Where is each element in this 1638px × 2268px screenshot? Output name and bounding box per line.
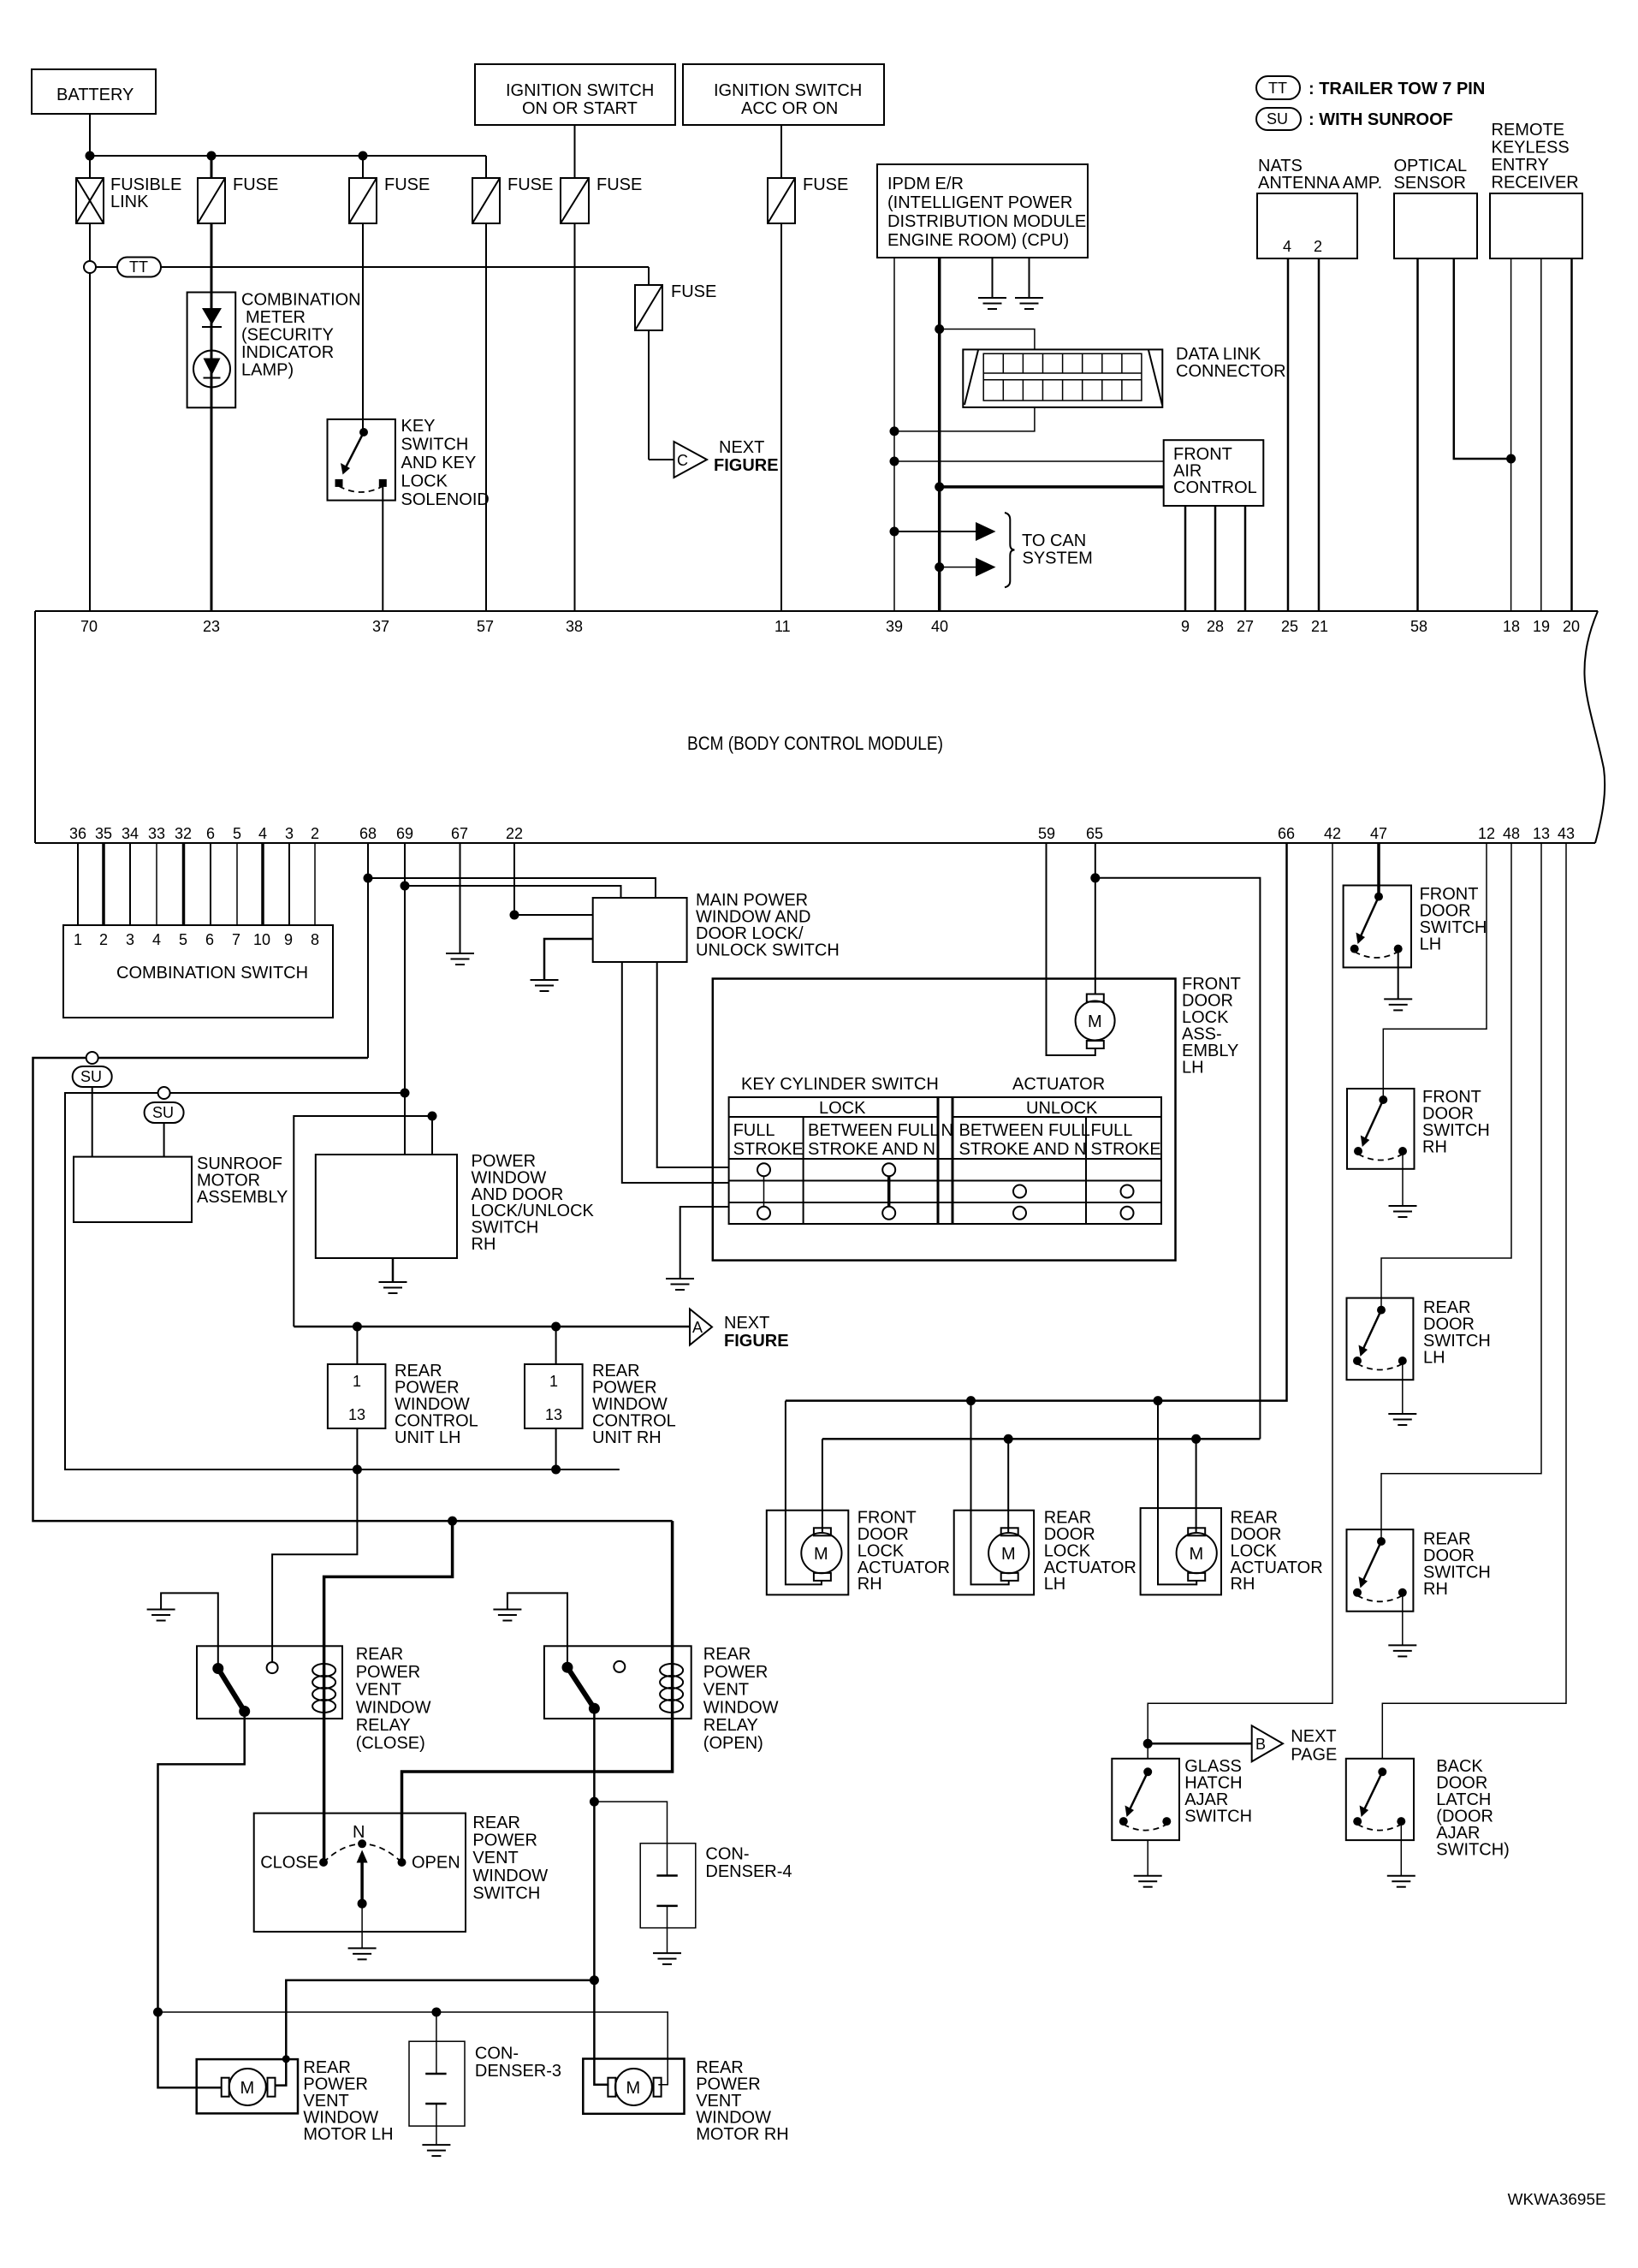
wire fuse4 to pin57	[485, 223, 487, 612]
svg-text:SU: SU	[152, 1104, 174, 1121]
wire dlc bottom to pin39 line	[894, 407, 1035, 431]
svg-text:CLOSE: CLOSE	[260, 1854, 318, 1873]
node pin68 branch	[364, 874, 373, 883]
wire to connector b	[1148, 1743, 1252, 1745]
svg-text:ASSEMBLY: ASSEMBLY	[197, 1188, 288, 1207]
wire rear door switch rh ground	[1402, 1593, 1404, 1646]
node TT tap	[84, 261, 96, 273]
svg-text:AND KEY: AND KEY	[401, 454, 477, 472]
contact unlock full r3	[1121, 1207, 1134, 1220]
wire pin12 to front door switch rh	[1383, 843, 1487, 1100]
node front air tap 40	[935, 482, 944, 491]
svg-text:3: 3	[126, 931, 134, 948]
svg-text:1: 1	[353, 1373, 361, 1390]
wire line1	[276, 1980, 595, 2086]
ignition switch on-start box	[475, 64, 675, 125]
ignition switch acc-on box	[683, 64, 884, 125]
fuse F7	[635, 282, 716, 330]
node optical remote join	[1506, 454, 1516, 464]
svg-text:M: M	[814, 1545, 828, 1564]
svg-text:UNIT RH: UNIT RH	[592, 1428, 662, 1447]
wire nats4 to pin25	[1287, 258, 1290, 612]
svg-text:REAR: REAR	[472, 1814, 520, 1832]
svg-text:65: 65	[1086, 825, 1103, 842]
svg-text:CON-: CON-	[705, 1845, 749, 1864]
wire to dlc top	[940, 330, 1035, 350]
rear power window control unit rh box	[525, 1362, 676, 1447]
front door switch lh	[1344, 885, 1487, 967]
IPDM E/R box	[877, 164, 1088, 258]
svg-text:8: 8	[311, 931, 319, 948]
svg-text:(SECURITY: (SECURITY	[241, 326, 334, 345]
wire 68 branch to main switch	[368, 878, 656, 898]
connector tag SU legend	[1256, 108, 1453, 130]
contact lock between r1	[882, 1163, 895, 1176]
svg-text:POWER: POWER	[472, 1832, 537, 1850]
wire main switch out left	[622, 962, 729, 1183]
ground pin67	[446, 953, 474, 965]
wire pin32	[182, 843, 186, 925]
wire pin42 to glass hatch	[1148, 843, 1332, 1759]
svg-text:CON-: CON-	[475, 2045, 519, 2063]
contact lock between r3	[882, 1207, 895, 1220]
svg-text:SENSOR: SENSOR	[1394, 174, 1466, 193]
wire fuse2 to meter	[211, 223, 213, 293]
svg-text:TT: TT	[1268, 80, 1287, 97]
fuse F6	[768, 175, 848, 223]
wire pin69 down	[404, 843, 406, 1093]
svg-text:LOCK: LOCK	[401, 472, 448, 491]
svg-text:4: 4	[152, 931, 161, 948]
wire su line 1	[33, 1058, 673, 1521]
svg-text:NEXT: NEXT	[719, 438, 764, 457]
front door lock assembly lh box	[713, 975, 1241, 1261]
svg-text:57: 57	[477, 618, 494, 635]
node battery bus	[86, 151, 95, 161]
wire su1 to sunroof	[92, 1087, 93, 1157]
svg-text:LH: LH	[1182, 1059, 1204, 1078]
svg-text:MOTOR LH: MOTOR LH	[303, 2125, 393, 2144]
wire remote to pin19	[1540, 258, 1542, 612]
ground back door latch	[1387, 1876, 1415, 1887]
svg-text:28: 28	[1207, 618, 1224, 635]
node pin22 corner	[510, 911, 519, 920]
svg-text:M: M	[1190, 1545, 1204, 1564]
rear power vent window motor lh box	[197, 2058, 394, 2144]
fuse F5	[561, 175, 642, 223]
ground main switch	[531, 980, 559, 991]
svg-text:SWITCH: SWITCH	[401, 436, 469, 454]
wire to condenser4	[594, 1802, 667, 1875]
svg-text:RH: RH	[472, 1235, 496, 1254]
svg-text:FUSE: FUSE	[596, 175, 642, 194]
glass hatch ajar switch	[1112, 1757, 1252, 1840]
wire pin47 to front door switch lh	[1377, 843, 1380, 897]
svg-text:4: 4	[258, 825, 267, 842]
svg-text:FULL: FULL	[1091, 1121, 1133, 1140]
ground front door switch rh	[1389, 1206, 1417, 1217]
power window and door lock unlock switch rh box	[316, 1152, 595, 1258]
svg-text:IPDM E/R: IPDM E/R	[887, 175, 964, 193]
wire main switch out right	[657, 962, 729, 1167]
svg-text:2: 2	[311, 825, 319, 842]
svg-text:38: 38	[566, 618, 583, 635]
svg-text:COMBINATION: COMBINATION	[241, 291, 361, 310]
ground vent switch	[348, 1948, 377, 1959]
svg-text:69: 69	[396, 825, 413, 842]
svg-text:REAR: REAR	[356, 1645, 404, 1664]
connector tag TT	[117, 258, 161, 277]
node fuse2 bus	[207, 151, 217, 161]
rear power vent window relay close box	[197, 1645, 431, 1753]
wire ipdm gnd1	[992, 258, 994, 298]
ground rear door switch rh	[1388, 1645, 1416, 1656]
svg-text:58: 58	[1410, 618, 1427, 635]
svg-text:47: 47	[1370, 825, 1387, 842]
svg-text:IGNITION SWITCH: IGNITION SWITCH	[714, 81, 862, 100]
svg-text:WINDOW: WINDOW	[703, 1698, 779, 1717]
svg-text:33: 33	[148, 825, 165, 842]
svg-text:IGNITION SWITCH: IGNITION SWITCH	[506, 81, 654, 100]
wire pin59	[1047, 843, 1095, 1055]
node bus65 rh tap	[1191, 1434, 1201, 1444]
svg-text:POWER: POWER	[703, 1663, 769, 1682]
svg-text:27: 27	[1237, 618, 1254, 635]
node condenser3 tap	[431, 2008, 441, 2017]
wire a to control unit rh	[555, 1327, 557, 1364]
svg-text:RELAY: RELAY	[703, 1716, 758, 1735]
svg-text:DISTRIBUTION MODULE: DISTRIBUTION MODULE	[887, 212, 1086, 231]
node relay close coil tap	[448, 1517, 457, 1526]
node a-line lh tap	[353, 1322, 362, 1332]
connector tag SU 1	[73, 1066, 112, 1087]
ground ipdm 1	[978, 298, 1006, 309]
motor front actuator rh	[801, 1528, 841, 1581]
wire ipdm gnd2	[1029, 258, 1030, 298]
node pin69 branch	[401, 882, 410, 891]
rear door lock actuator rh box	[1141, 1508, 1323, 1594]
wire fuse3 to key switch	[362, 223, 364, 432]
wire to condenser3	[436, 2012, 437, 2074]
svg-text:METER: METER	[246, 308, 306, 327]
wire contact link col1	[763, 1176, 765, 1207]
svg-text:STROKE: STROKE	[1091, 1140, 1161, 1159]
node switch rh corner	[428, 1112, 437, 1121]
condenser-4	[640, 1843, 792, 1953]
svg-text:VENT: VENT	[703, 1681, 749, 1700]
wire a to control unit lh	[356, 1327, 358, 1364]
wire rear actuator lh top feed	[1007, 1439, 1009, 1532]
node bus66 lh tap	[966, 1396, 976, 1405]
wire fuse6 to pin11	[780, 223, 782, 612]
svg-text:ACC OR ON: ACC OR ON	[741, 99, 838, 118]
wire vent switch ground	[361, 1903, 363, 1948]
node line2 left	[153, 2008, 163, 2017]
node line1 box edge	[282, 2055, 290, 2063]
svg-text:FUSE: FUSE	[507, 175, 553, 194]
node b page tap	[1143, 1739, 1153, 1748]
node su2 lh junction	[353, 1465, 362, 1475]
wire a-line	[294, 1326, 690, 1328]
rear door lock actuator lh box	[954, 1509, 1137, 1595]
combination switch box	[63, 925, 333, 1018]
svg-text:2: 2	[1314, 238, 1322, 255]
svg-text:12: 12	[1478, 825, 1495, 842]
wire rear actuator rh top feed	[1196, 1439, 1197, 1532]
svg-text:36: 36	[69, 825, 86, 842]
combination meter security indicator lamp	[187, 291, 361, 408]
wire table ground feed	[680, 1207, 729, 1279]
svg-text:25: 25	[1281, 618, 1298, 635]
ground rear door switch lh	[1388, 1414, 1416, 1425]
ground switch rh	[379, 1282, 407, 1293]
svg-text:SWITCH: SWITCH	[1184, 1808, 1252, 1826]
svg-text:FUSE: FUSE	[384, 175, 430, 194]
svg-text:FUSE: FUSE	[233, 175, 278, 194]
svg-text:POWER: POWER	[356, 1663, 421, 1682]
wire ground to relay close common	[161, 1593, 218, 1668]
svg-text:SYSTEM: SYSTEM	[1023, 549, 1093, 568]
svg-text:N: N	[941, 1121, 953, 1140]
svg-text:LH: LH	[1423, 1349, 1445, 1368]
wire pin65	[1095, 843, 1096, 994]
svg-text:M: M	[626, 2079, 641, 2098]
wire pin4	[261, 843, 264, 925]
motor vent lh	[222, 2069, 276, 2105]
wire relay open coil feed	[402, 1521, 673, 1862]
ground front door switch lh	[1384, 999, 1412, 1010]
wire su2 to sunroof	[163, 1123, 165, 1157]
wire switch rh to ground	[392, 1258, 395, 1282]
wire pin33	[156, 843, 157, 925]
svg-text:DATA LINK: DATA LINK	[1176, 345, 1261, 364]
svg-text:BATTERY: BATTERY	[56, 86, 134, 104]
svg-text:KEY CYLINDER SWITCH: KEY CYLINDER SWITCH	[741, 1075, 939, 1094]
svg-text:19: 19	[1533, 618, 1550, 635]
node condenser4 tap	[590, 1797, 599, 1807]
motor vent rh	[608, 2069, 661, 2105]
wire back door latch ground	[1400, 1821, 1402, 1876]
svg-text:VENT: VENT	[472, 1849, 518, 1867]
svg-text:M: M	[240, 2079, 255, 2098]
rear power window control unit lh box	[328, 1362, 478, 1447]
wire pin67 down	[460, 843, 461, 953]
svg-text:INDICATOR: INDICATOR	[241, 343, 334, 362]
rear power vent window motor rh box	[583, 2058, 788, 2144]
wire ign1 to fuse5	[574, 125, 576, 178]
wire main switch left to ground	[544, 939, 593, 980]
wire ground to relay open common	[507, 1593, 567, 1667]
svg-text:6: 6	[206, 825, 215, 842]
svg-text:37: 37	[372, 618, 389, 635]
wire front actuator rh return	[786, 1401, 822, 1585]
connector B next page	[1252, 1725, 1338, 1764]
wire optical right jog	[1454, 258, 1511, 459]
svg-text:5: 5	[233, 825, 241, 842]
svg-text:42: 42	[1324, 825, 1341, 842]
wire pin43 to back door latch	[1382, 843, 1566, 1759]
wire nats2 to pin21	[1318, 258, 1320, 612]
contact lock full stroke r1	[757, 1163, 770, 1176]
node bus65 lh tap	[1004, 1434, 1013, 1444]
svg-text:4: 4	[1283, 238, 1291, 255]
connector tag TT legend	[1256, 76, 1485, 99]
svg-text:ENTRY: ENTRY	[1492, 156, 1549, 175]
wire glass hatch ground	[1147, 1840, 1148, 1876]
remote keyless entry receiver box	[1490, 121, 1582, 258]
node su2 rh junction	[551, 1465, 561, 1475]
wire line2	[158, 2012, 668, 2085]
svg-text:WINDOW: WINDOW	[356, 1698, 431, 1717]
svg-text:LH: LH	[1420, 935, 1442, 954]
contact unlock between r3	[1013, 1207, 1026, 1220]
connector C next figure	[674, 438, 779, 478]
wire relay close output	[158, 1712, 245, 2088]
node can tap 40	[935, 562, 944, 572]
svg-text:SOLENOID: SOLENOID	[401, 490, 490, 509]
svg-text:C: C	[677, 452, 688, 469]
wire contact link col2	[887, 1176, 891, 1207]
svg-text:: TRAILER TOW 7 PIN: : TRAILER TOW 7 PIN	[1309, 80, 1485, 98]
fusible link F1	[76, 175, 181, 223]
svg-text:1: 1	[74, 931, 82, 948]
svg-text:RELAY: RELAY	[356, 1716, 411, 1735]
wire rear actuator lh return	[971, 1401, 1009, 1585]
wire can arrow 2	[940, 567, 978, 568]
node dlc bottom tap	[890, 426, 899, 436]
node a-line rh tap	[551, 1322, 561, 1332]
svg-text:13: 13	[545, 1406, 562, 1423]
ground condenser3	[422, 2145, 450, 2156]
wire pin13 to rear door switch rh	[1381, 843, 1541, 1541]
battery box	[32, 69, 156, 114]
rear power vent window switch box	[254, 1814, 549, 1933]
wire pin6	[210, 843, 211, 925]
sunroof motor assembly box	[74, 1155, 288, 1222]
wire front air to pin27	[1244, 506, 1247, 612]
svg-text:FUSIBLE: FUSIBLE	[110, 175, 181, 194]
ground ipdm 2	[1015, 298, 1043, 309]
wire pin3	[288, 843, 290, 925]
ground relay open	[493, 1610, 521, 1621]
svg-text:B: B	[1255, 1736, 1266, 1753]
wire pin68 down	[367, 843, 369, 1058]
svg-text:23: 23	[203, 618, 220, 635]
node dlc top tap	[935, 324, 944, 334]
main power window and door lock unlock switch box	[593, 891, 840, 962]
optical sensor box	[1394, 157, 1478, 258]
wire ipdm to pin40	[938, 258, 941, 612]
svg-text:48: 48	[1503, 825, 1520, 842]
svg-text:BETWEEN FULL: BETWEEN FULL	[959, 1121, 1090, 1140]
svg-text:LINK: LINK	[110, 193, 149, 211]
svg-text:11: 11	[774, 618, 791, 635]
connector A next figure	[690, 1309, 789, 1351]
svg-text:59: 59	[1038, 825, 1055, 842]
motor front door lock lh	[1076, 994, 1115, 1049]
motor rear actuator lh	[988, 1528, 1029, 1581]
svg-text:MOTOR RH: MOTOR RH	[696, 2125, 789, 2144]
svg-text:TO CAN: TO CAN	[1022, 531, 1086, 550]
svg-text:(CLOSE): (CLOSE)	[356, 1734, 425, 1753]
node front air tap 39	[890, 457, 899, 466]
wire bus top	[90, 155, 486, 157]
svg-text:22: 22	[506, 825, 523, 842]
svg-text:ON OR START: ON OR START	[522, 99, 638, 118]
svg-text:RH: RH	[1423, 1580, 1448, 1599]
svg-text:BCM (BODY CONTROL MODULE): BCM (BODY CONTROL MODULE)	[687, 733, 943, 754]
wire bus65 horizontal	[822, 1438, 1261, 1440]
svg-text:A: A	[692, 1319, 703, 1336]
svg-text:NEXT: NEXT	[1291, 1727, 1336, 1746]
svg-text:13: 13	[348, 1406, 365, 1423]
svg-text:TT: TT	[129, 258, 148, 276]
svg-text:SWITCH: SWITCH	[472, 1884, 540, 1903]
svg-text:(INTELLIGENT POWER: (INTELLIGENT POWER	[887, 193, 1072, 212]
wire ipdm to pin39	[893, 258, 895, 612]
svg-text:SU: SU	[1267, 110, 1288, 128]
svg-text:SU: SU	[80, 1068, 102, 1085]
node su tap 2	[158, 1087, 170, 1099]
svg-text:LOCK: LOCK	[819, 1099, 866, 1118]
wire TT line	[96, 266, 117, 268]
ground relay close	[147, 1610, 175, 1621]
ground key cylinder	[666, 1279, 694, 1290]
svg-text:FUSE: FUSE	[803, 175, 848, 194]
svg-text:UNLOCK SWITCH: UNLOCK SWITCH	[696, 941, 840, 960]
node pin69 switch rh tap	[401, 1089, 410, 1098]
fuse F2	[198, 175, 278, 223]
svg-text:13: 13	[1533, 825, 1550, 842]
svg-text:68: 68	[359, 825, 377, 842]
svg-text:10: 10	[253, 931, 270, 948]
contact lock full r3	[757, 1207, 770, 1220]
node fuse3 bus	[359, 151, 368, 161]
wire front door switch rh ground	[1402, 1151, 1404, 1206]
node su tap 1	[86, 1052, 98, 1064]
wire 69 branch to main switch	[405, 886, 621, 898]
BCM body control module box	[35, 611, 1605, 843]
wire pin2	[314, 843, 316, 925]
svg-text:67: 67	[451, 825, 468, 842]
svg-text:PAGE: PAGE	[1291, 1746, 1337, 1765]
svg-text:STROKE AND N: STROKE AND N	[808, 1140, 935, 1159]
svg-text:WINDOW: WINDOW	[472, 1867, 548, 1885]
wire pin36	[77, 843, 79, 925]
svg-text:21: 21	[1311, 618, 1328, 635]
wire pin48 to rear door switch lh	[1381, 843, 1511, 1310]
svg-text:FULL: FULL	[733, 1121, 775, 1140]
svg-text:70: 70	[80, 618, 98, 635]
svg-text:CONTROL: CONTROL	[1173, 478, 1257, 497]
node can tap 39	[890, 527, 899, 537]
wire front air to pin9	[1184, 506, 1187, 612]
svg-text:FUSE: FUSE	[671, 282, 716, 301]
wire to switch rh right	[431, 1116, 433, 1155]
wire key switch to pin37	[382, 487, 383, 612]
svg-text:7: 7	[232, 931, 240, 948]
svg-text:REMOTE: REMOTE	[1492, 121, 1565, 140]
contact unlock full r2	[1121, 1185, 1134, 1198]
svg-text:DENSER-3: DENSER-3	[475, 2062, 561, 2081]
svg-text:40: 40	[931, 618, 948, 635]
svg-text:(OPEN): (OPEN)	[703, 1734, 763, 1753]
wire pin35	[102, 843, 105, 925]
svg-text:35: 35	[95, 825, 112, 842]
svg-text:3: 3	[285, 825, 294, 842]
wire a-line feed jog	[294, 1116, 432, 1327]
svg-text:ACTUATOR: ACTUATOR	[1012, 1075, 1105, 1094]
